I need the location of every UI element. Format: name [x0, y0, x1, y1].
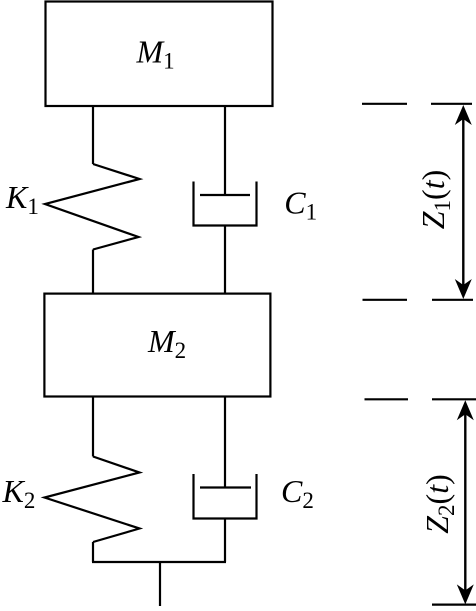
- input stub wire: [159, 562, 161, 606]
- wire M2 to spring K2: [92, 397, 94, 457]
- svg-text:Z1(t): Z1(t): [415, 170, 455, 230]
- arrow Z2: [457, 400, 474, 604]
- wire damper C2 to base: [224, 519, 226, 563]
- wire M2 to damper C2: [224, 397, 226, 488]
- svg-text:C1: C1: [284, 184, 317, 224]
- spring K1: [45, 164, 140, 250]
- wire M1 to spring K1: [92, 106, 94, 164]
- base bar: [92, 561, 226, 563]
- wire spring K1 to M2: [92, 250, 94, 294]
- svg-text:K1: K1: [5, 179, 39, 219]
- wire spring K2 to base: [92, 542, 94, 562]
- damper C1 cylinder: [194, 182, 257, 226]
- svg-text:Z2(t): Z2(t): [419, 474, 459, 534]
- wire damper C1 to M2: [224, 226, 226, 294]
- svg-text:M1: M1: [136, 34, 175, 74]
- svg-text:M2: M2: [147, 323, 186, 363]
- mass M1: [46, 2, 273, 107]
- svg-text:K2: K2: [2, 473, 36, 513]
- mass M2: [44, 294, 270, 397]
- wire M1 to damper C1: [224, 106, 226, 195]
- datum dash M2 top right: [432, 299, 473, 301]
- arrow Z1: [455, 105, 472, 299]
- datum dash M1 bottom left: [362, 103, 407, 105]
- datum dash M2 bottom left: [365, 398, 409, 400]
- damper C1 piston: [200, 194, 250, 196]
- datum dash M1 bottom right: [431, 103, 472, 105]
- datum dash M2 top left: [363, 299, 408, 301]
- damper C2 cylinder: [194, 474, 257, 519]
- datum dash M2 bottom right: [432, 398, 476, 400]
- datum dash base right: [432, 603, 476, 605]
- spring K2: [45, 457, 140, 543]
- svg-text:C2: C2: [281, 473, 314, 513]
- damper C2 piston: [200, 486, 251, 488]
